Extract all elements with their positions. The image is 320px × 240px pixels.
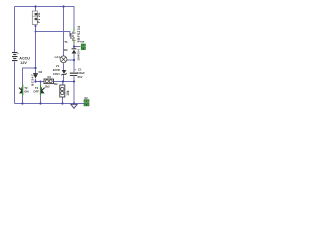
svg-text:T1: T1 [64,40,68,44]
svg-text:ON: ON [24,89,28,93]
svg-text:X2: X2 [84,96,88,100]
svg-text:BC547: BC547 [30,74,34,86]
svg-text:LA1: LA1 [55,55,61,59]
svg-text:12V: 12V [20,61,27,65]
svg-text:h nur: h nur [78,40,86,44]
svg-text:R1: R1 [48,75,52,79]
svg-text:D2: D2 [64,48,68,52]
svg-text:F1 2A: F1 2A [37,12,41,23]
svg-text:2k2: 2k2 [45,85,50,89]
svg-text:C3V1: C3V1 [53,72,60,76]
svg-text:R2: R2 [54,82,58,86]
svg-text:10k: 10k [66,90,70,96]
svg-text:25V: 25V [78,75,83,79]
svg-text:ACCU: ACCU [19,57,30,61]
svg-text:D3: D3 [39,70,43,74]
svg-text:1N4004: 1N4004 [76,49,80,61]
svg-text:OFF: OFF [33,89,39,93]
